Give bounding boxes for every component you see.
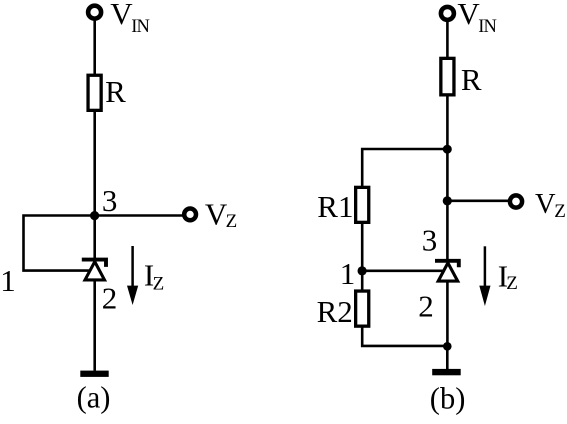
svg-text:IN: IN [131,17,149,37]
svg-text:IN: IN [478,17,496,37]
label pin 1 (b) [340,256,356,291]
shunt regulator D2 anode triangle (b) [438,263,458,281]
wire D1 to ground (a) [93,280,96,371]
svg-text:Z: Z [226,211,238,232]
svg-text:V: V [535,189,556,220]
label R1 (b) [317,189,353,224]
label pin 3 (a) [102,183,118,218]
label VZ (b) [535,189,566,222]
resistor R (a) [88,75,101,110]
wire feedback loop node 3 to pin 1 (a) [24,216,95,271]
wire VIN to R (a) [93,21,96,76]
wire R to top junction (b) [446,95,449,260]
label R (b) [461,62,482,97]
bottom junction dot (b) [443,342,452,351]
terminal VIN (a) [88,6,101,19]
svg-text:R1: R1 [317,189,353,224]
svg-text:Z: Z [506,273,518,294]
shunt regulator D1 cathode bar with tick (a) [82,260,106,267]
terminal VZ (b) [510,195,522,207]
node 1 junction dot (b) [358,266,367,275]
label pin 2 (b) [418,289,434,324]
svg-text:2: 2 [418,289,434,324]
current arrow IZ (a) [127,246,138,305]
svg-text:R: R [105,74,126,109]
label VZ (a) [205,197,237,232]
ground symbol (b) [432,369,461,375]
label R2 (b) [317,294,353,329]
wire R to node 3 (a) [93,111,96,259]
node 3 junction dot (a) [90,211,99,220]
current arrow IZ (b) [479,246,490,306]
wire top junction to R1 branch (b) [362,149,447,187]
svg-text:(a): (a) [77,381,111,415]
svg-text:3: 3 [422,222,438,257]
label IZ (b) [498,258,518,294]
wire VZ node to VZ terminal (b) [447,200,508,203]
VZ node junction dot (b) [443,196,452,205]
svg-text:3: 3 [102,183,118,218]
svg-text:V: V [457,0,480,31]
label pin 3 (b) [422,222,438,257]
wire bottom junction to ground (b) [446,346,449,369]
resistor R2 (b) [356,291,369,326]
resistor R (b) [441,58,454,95]
wire D2 to bottom junction (b) [446,281,449,347]
svg-text:1: 1 [0,263,16,298]
label VIN (a) [110,0,149,37]
ground symbol (a) [80,371,108,377]
shunt regulator D2 cathode bar with tick (b) [435,261,459,267]
label pin 1 (a) [0,263,16,298]
terminal VIN (b) [441,7,454,20]
caption (b) [430,382,466,416]
svg-text:Z: Z [554,201,566,222]
wire node 1 to D2 reference (b) [362,269,443,272]
svg-text:V: V [205,197,228,232]
label R (a) [105,74,126,109]
label pin 2 (a) [102,281,118,316]
wire node 3 to VZ terminal (a) [95,214,183,217]
svg-text:R2: R2 [317,294,353,329]
svg-text:V: V [110,0,133,31]
label VIN (b) [457,0,496,37]
svg-text:2: 2 [102,281,118,316]
shunt regulator D1 anode triangle (a) [85,262,105,280]
svg-text:R: R [461,62,482,97]
wire R1 to node 1 (b) [361,223,364,291]
resistor R1 (b) [356,187,369,222]
wire VIN to R (b) [446,21,449,58]
wire R2 to bottom junction (b) [362,326,447,346]
svg-text:Z: Z [153,273,165,294]
svg-text:(b): (b) [430,382,466,416]
caption (a) [77,381,111,415]
label IZ (a) [144,258,164,295]
top junction dot (b) [443,145,452,154]
terminal VZ (a) [184,209,196,221]
svg-text:1: 1 [340,256,356,291]
